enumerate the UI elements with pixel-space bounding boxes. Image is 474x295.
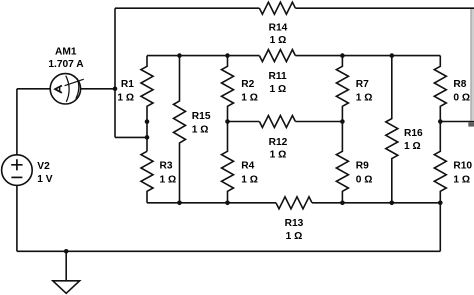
node dot R1 column lower bbox=[145, 135, 150, 140]
svg-text:R1: R1 bbox=[121, 79, 134, 90]
wire top rail bbox=[115, 7, 474, 9]
node dot rail3 R7 bbox=[340, 119, 345, 124]
node dot rail3 R8 bbox=[438, 119, 443, 124]
node dot rail5 R4 bbox=[225, 201, 230, 206]
svg-text:V2: V2 bbox=[37, 161, 50, 172]
svg-text:1 Ω: 1 Ω bbox=[270, 35, 287, 46]
wire rail3 right segment bbox=[440, 121, 474, 123]
node dot rail5 R15 bbox=[177, 201, 182, 206]
svg-text:1 Ω: 1 Ω bbox=[241, 174, 258, 185]
resistor R15 bbox=[174, 56, 186, 203]
wire bottom rail bbox=[17, 250, 440, 252]
wire left branch to R1 column bbox=[115, 136, 147, 138]
svg-text:1 Ω: 1 Ω bbox=[117, 92, 134, 103]
svg-text:1 Ω: 1 Ω bbox=[241, 92, 258, 103]
voltage source V2 bbox=[2, 155, 33, 186]
node dot AM1 junction bbox=[113, 87, 118, 92]
wire AM1 left bbox=[17, 88, 50, 90]
svg-text:R11: R11 bbox=[269, 71, 287, 82]
svg-text:1.707 A: 1.707 A bbox=[48, 59, 84, 70]
resistor R2 bbox=[222, 56, 234, 122]
wire rail2 bbox=[147, 55, 440, 57]
ground bbox=[53, 281, 80, 294]
resistor R9 bbox=[336, 122, 348, 203]
wire rail3 left segment bbox=[228, 121, 343, 123]
wire rail5 bbox=[147, 202, 440, 204]
resistor R4 bbox=[222, 122, 234, 203]
resistor R14 bbox=[259, 2, 295, 14]
svg-text:1 Ω: 1 Ω bbox=[404, 141, 421, 152]
svg-text:R14: R14 bbox=[269, 23, 288, 34]
wire R1-R3 column middle bbox=[146, 122, 148, 152]
wire AM1 right bbox=[81, 88, 115, 90]
node dot rail2 R16 bbox=[390, 53, 395, 58]
svg-text:1 Ω: 1 Ω bbox=[270, 150, 287, 161]
svg-text:R10: R10 bbox=[453, 161, 472, 172]
resistor R11 bbox=[259, 50, 295, 62]
wire left vertical bbox=[114, 8, 116, 137]
node dot rail5 R10 bbox=[438, 201, 443, 206]
node dot R1 column upper bbox=[145, 119, 150, 124]
svg-text:0 Ω: 0 Ω bbox=[356, 174, 373, 185]
resistor R10 bbox=[434, 122, 446, 203]
svg-text:1 Ω: 1 Ω bbox=[286, 231, 303, 242]
svg-text:AM1: AM1 bbox=[55, 47, 77, 58]
wire ground stub bbox=[65, 251, 67, 280]
node dot rail2 R15 bbox=[177, 53, 182, 58]
svg-text:R9: R9 bbox=[356, 161, 369, 172]
right edge gray wire bbox=[470, 9, 471, 121]
svg-text:R4: R4 bbox=[241, 161, 254, 172]
svg-text:R13: R13 bbox=[285, 218, 304, 229]
resistor R1 bbox=[141, 56, 153, 122]
node dot rail3 R2 bbox=[225, 119, 230, 124]
svg-text:R15: R15 bbox=[192, 111, 211, 122]
node dot rail5 R9 bbox=[340, 201, 345, 206]
svg-text:1 Ω: 1 Ω bbox=[453, 174, 470, 185]
svg-text:R3: R3 bbox=[160, 161, 173, 172]
ammeter A glyph bbox=[55, 86, 62, 93]
right edge dark cap bbox=[468, 122, 474, 126]
svg-text:1 V: 1 V bbox=[37, 174, 52, 185]
resistor R3 bbox=[141, 151, 153, 203]
right edge gray strip bbox=[471, 9, 474, 121]
svg-text:1 Ω: 1 Ω bbox=[192, 125, 209, 136]
node dot ground bbox=[64, 249, 69, 254]
node dot rail2 R2 bbox=[225, 53, 230, 58]
svg-text:1 Ω: 1 Ω bbox=[160, 174, 177, 185]
svg-text:1 Ω: 1 Ω bbox=[269, 84, 286, 95]
svg-text:R16: R16 bbox=[404, 128, 423, 139]
wire V2 top bbox=[16, 89, 18, 155]
svg-text:R2: R2 bbox=[241, 79, 254, 90]
wire V2 bottom bbox=[16, 185, 18, 251]
ammeter AM1 bbox=[50, 74, 80, 104]
svg-text:1 Ω: 1 Ω bbox=[356, 92, 373, 103]
wire R10 bottom to bottom rail bbox=[439, 203, 441, 252]
resistor R8 bbox=[434, 56, 446, 122]
svg-text:R12: R12 bbox=[269, 137, 288, 148]
resistor R7 bbox=[336, 56, 348, 122]
resistor R16 bbox=[386, 56, 398, 203]
svg-text:R7: R7 bbox=[356, 79, 369, 90]
svg-text:0 Ω: 0 Ω bbox=[453, 92, 470, 103]
resistor R12 bbox=[259, 116, 295, 128]
node dot rail5 R16 bbox=[390, 201, 395, 206]
node dot rail2 R7 bbox=[340, 53, 345, 58]
resistor R13 bbox=[276, 197, 312, 209]
svg-text:R8: R8 bbox=[453, 79, 466, 90]
